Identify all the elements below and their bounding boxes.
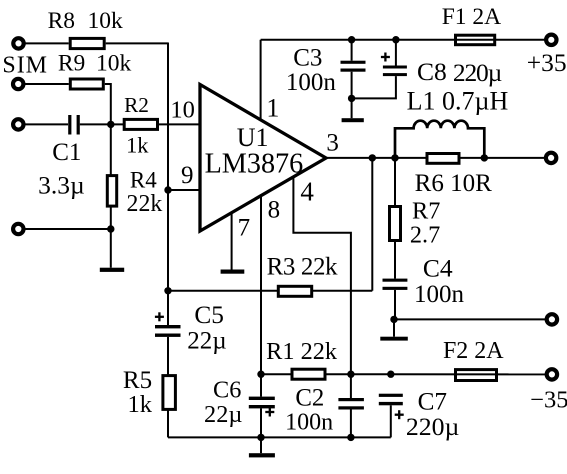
- terminal T4 input ground: [13, 224, 23, 234]
- op-amp U1 LM3876 body: [200, 85, 326, 232]
- svg-text:C8: C8: [417, 57, 447, 86]
- svg-text:220µ: 220µ: [406, 412, 460, 441]
- plus sign C5: [155, 316, 164, 318]
- resistor R4: [107, 176, 116, 207]
- wire T2 to R9: [25, 83, 69, 85]
- svg-text:F1 2A: F1 2A: [442, 4, 501, 30]
- resistor R5: [163, 376, 176, 410]
- svg-text:1k: 1k: [126, 133, 149, 158]
- terminal T7 output return: [547, 314, 557, 324]
- svg-text:9: 9: [181, 162, 194, 189]
- junction C3 top: [348, 36, 355, 43]
- svg-text:1k: 1k: [127, 391, 152, 418]
- svg-text:L1 0.7µH: L1 0.7µH: [407, 87, 509, 116]
- junction C8 top: [392, 36, 399, 43]
- resistor R9: [70, 79, 103, 89]
- wire R2 to pin 10: [158, 123, 201, 125]
- wire bottom ground rail: [168, 436, 391, 438]
- svg-text:7: 7: [238, 214, 251, 241]
- wire C3 bottom lead: [351, 72, 353, 99]
- wire pin 9 node down to C5 node: [167, 190, 169, 291]
- wire top rail pin 1 to +35 terminal through F1: [261, 39, 545, 41]
- wire pin 4 to negative rail: [293, 177, 351, 374]
- svg-text:R3 22k: R3 22k: [267, 254, 338, 281]
- resistor R8: [70, 38, 104, 48]
- wire ground node down to ground G1: [110, 229, 112, 268]
- ground G5: [249, 453, 275, 457]
- junction output/R3 riser: [369, 154, 376, 161]
- capacitor C1 plates: [68, 115, 71, 135]
- wire pin 1 riser: [260, 40, 262, 120]
- plus sign C6: [265, 411, 274, 413]
- fuse F2: [456, 370, 497, 381]
- wire R8 to feedback riser: [106, 42, 168, 44]
- plus sign C8: [381, 56, 390, 58]
- svg-text:+35: +35: [527, 48, 567, 77]
- wire negative rail to -35 terminal through F2: [261, 373, 545, 375]
- wire C6 node to ground G5: [260, 437, 262, 453]
- resistor R7: [390, 207, 401, 241]
- wire R3 to feedback riser: [312, 290, 373, 292]
- junction pin 9 node: [164, 186, 171, 193]
- wire T3 to C1: [25, 123, 68, 125]
- svg-text:R4: R4: [130, 168, 157, 193]
- wire output rail pin 3 to T6: [326, 157, 544, 159]
- svg-text:C2: C2: [295, 384, 324, 411]
- wire R4 to T4 node: [110, 206, 112, 229]
- wire R7 to C4: [394, 241, 396, 279]
- wire C8 top lead: [395, 40, 397, 66]
- svg-text:C3: C3: [293, 45, 322, 72]
- wire C4 bottom lead: [394, 290, 396, 320]
- wire C1 to R2 through node A: [80, 123, 124, 125]
- wire C5 node to R3: [168, 290, 278, 292]
- svg-text:R1 22k: R1 22k: [266, 338, 338, 365]
- svg-text:10: 10: [170, 97, 195, 124]
- wire C5 to R5: [167, 337, 169, 376]
- ground G2: [221, 270, 245, 274]
- wire C6 bottom lead: [260, 408, 262, 437]
- junction C2 bottom on ground rail: [347, 434, 354, 441]
- ground G3: [342, 118, 364, 122]
- svg-text:100n: 100n: [285, 410, 333, 436]
- junction node A C1/R9/R2/R4: [107, 121, 114, 128]
- wire C4 node to ground G4: [393, 319, 395, 336]
- ground G1: [100, 268, 124, 272]
- capacitor C3 plates: [341, 61, 366, 64]
- capacitor C4 plates: [383, 279, 408, 282]
- svg-text:R5: R5: [123, 367, 152, 394]
- resistor R3: [278, 286, 311, 296]
- svg-text:R9: R9: [58, 51, 85, 77]
- svg-text:LM3876: LM3876: [205, 148, 304, 179]
- junction L1/R6 right: [481, 154, 488, 161]
- terminal T8 -35 supply: [547, 369, 557, 379]
- junction pin8/R1/C6 on negative rail: [257, 371, 264, 378]
- plus sign C7: [395, 414, 404, 416]
- svg-text:R8: R8: [48, 8, 75, 34]
- wire node A to R4: [110, 124, 112, 175]
- svg-text:4: 4: [300, 176, 314, 206]
- inductor L1: [395, 121, 484, 158]
- wire R7 top lead: [394, 158, 396, 207]
- svg-text:R2: R2: [124, 93, 149, 117]
- resistor R6: [427, 154, 459, 164]
- svg-text:−35: −35: [530, 386, 567, 413]
- svg-text:F2 2A: F2 2A: [443, 338, 504, 364]
- svg-text:3.3µ: 3.3µ: [38, 170, 85, 199]
- junction pin4/C2 on negative rail: [347, 371, 354, 378]
- wire R9 to node A: [105, 84, 111, 124]
- terminal T6 output: [546, 153, 556, 163]
- resistor R2: [124, 119, 157, 129]
- svg-text:22µ: 22µ: [204, 401, 242, 428]
- svg-text:SIM: SIM: [2, 52, 48, 78]
- terminal T5 +35 supply: [546, 35, 556, 45]
- svg-text:C4: C4: [423, 254, 453, 283]
- wire pin 9: [168, 189, 200, 191]
- wire T4 to ground node: [25, 228, 111, 230]
- wire C7 bottom lead: [390, 405, 392, 437]
- ground G4: [380, 337, 408, 341]
- svg-text:2.7: 2.7: [410, 221, 440, 248]
- svg-text:22k: 22k: [127, 191, 163, 217]
- wire feedback riser R8 to pin 9 node: [167, 43, 169, 191]
- capacitor C5 plates: [155, 325, 181, 328]
- junction C3/C8 bottom: [348, 95, 355, 102]
- svg-text:10k: 10k: [96, 51, 132, 77]
- terminal T2 input R9: [13, 79, 23, 89]
- wire pin 8 riser to negative rail: [260, 196, 262, 374]
- svg-text:100n: 100n: [414, 281, 465, 308]
- svg-text:220µ: 220µ: [453, 58, 502, 87]
- svg-text:C6: C6: [213, 376, 241, 403]
- wire feedback riser R3 to output: [371, 158, 373, 291]
- wire C6 top lead: [260, 374, 262, 396]
- wire C8 bottom lead to C3 node: [352, 76, 396, 98]
- wire C2 bottom lead: [350, 410, 352, 438]
- capacitor C2 plates: [338, 398, 364, 401]
- wire pin 7 to ground G2: [231, 212, 233, 270]
- resistor R1: [292, 369, 325, 379]
- wire C4 node to T7: [394, 318, 545, 320]
- terminal T3 signal input: [13, 119, 23, 129]
- junction C5/R3 node: [164, 287, 171, 294]
- svg-text:C5: C5: [194, 301, 224, 329]
- svg-text:3: 3: [326, 129, 339, 156]
- junction output/L1/R6/R7: [391, 154, 398, 161]
- svg-text:100n: 100n: [286, 69, 337, 96]
- wire C3 node to ground G3: [351, 98, 353, 118]
- wire C3 top lead: [351, 40, 353, 61]
- junction C4 bottom node: [390, 316, 397, 323]
- svg-text:8: 8: [268, 196, 281, 223]
- capacitor C7 plates: [379, 394, 403, 397]
- svg-text:R6 10R: R6 10R: [415, 170, 492, 197]
- svg-text:22µ: 22µ: [187, 327, 226, 354]
- junction C7 top on negative rail: [387, 371, 394, 378]
- wire C5 top lead: [167, 291, 169, 325]
- junction C6 bottom on ground rail: [257, 434, 264, 441]
- svg-text:1: 1: [266, 93, 279, 122]
- fuse F1: [456, 35, 495, 45]
- svg-text:10k: 10k: [87, 8, 123, 34]
- capacitor C6 plates: [249, 397, 275, 400]
- wire T1 to R8: [25, 42, 69, 44]
- junction T4/R4/ground: [107, 225, 114, 232]
- wire C2 top lead: [350, 374, 352, 398]
- svg-text:C1: C1: [52, 139, 81, 166]
- capacitor C8 plates: [383, 66, 407, 69]
- wire R5 to bottom rail: [167, 409, 169, 437]
- terminal T1 input R8: [13, 38, 23, 48]
